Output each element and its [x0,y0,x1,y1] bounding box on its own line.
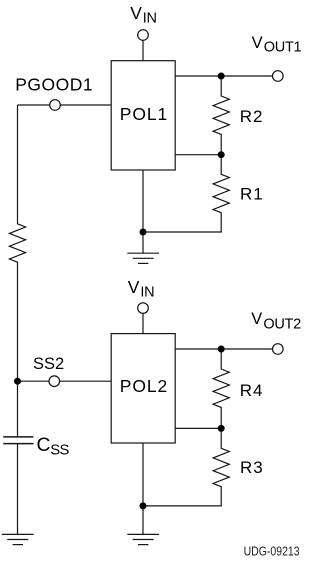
svg-text:R1: R1 [240,185,264,204]
svg-text:SS2: SS2 [33,355,64,373]
svg-text:R2: R2 [240,107,264,126]
svg-text:POL2: POL2 [120,376,168,396]
svg-text:PGOOD1: PGOOD1 [15,75,93,95]
svg-text:IN: IN [143,11,157,27]
svg-text:UDG-09213: UDG-09213 [244,544,300,558]
svg-text:V: V [130,3,142,23]
svg-text:OUT1: OUT1 [264,40,302,56]
svg-text:R3: R3 [240,458,264,477]
svg-text:V: V [128,277,140,297]
svg-text:IN: IN [140,285,154,301]
svg-text:R4: R4 [240,381,264,400]
svg-text:OUT2: OUT2 [263,316,301,332]
svg-text:V: V [251,310,262,328]
svg-text:C: C [37,435,51,456]
svg-text:POL1: POL1 [120,104,168,124]
svg-text:SS: SS [50,442,69,458]
svg-text:V: V [252,34,263,52]
